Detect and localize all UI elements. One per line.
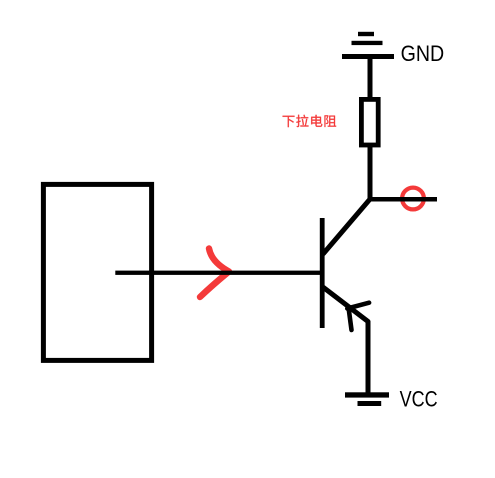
ground: [342, 32, 394, 59]
wire resistor to node: [368, 147, 373, 199]
wire emitter to VCC: [366, 321, 371, 393]
emitter arrow: [347, 303, 369, 330]
node A (collector output junction): [368, 197, 437, 202]
label 下拉电阻: [283, 115, 337, 127]
transistor Q1 base bar: [320, 218, 325, 328]
power VCC symbol: [345, 392, 389, 406]
transistor Q1 emitter: [324, 288, 369, 322]
input box: [43, 184, 151, 360]
resistor R1 (pull-down): [361, 99, 378, 145]
svg-text:VCC: VCC: [400, 386, 438, 411]
svg-text:GND: GND: [401, 41, 445, 66]
wire collector diagonal: [324, 199, 371, 254]
output terminal marker (red circle): [402, 188, 424, 210]
wire ground to resistor: [368, 58, 373, 99]
signal direction mark (red chevron): [200, 249, 229, 298]
wire base input: [115, 271, 322, 275]
